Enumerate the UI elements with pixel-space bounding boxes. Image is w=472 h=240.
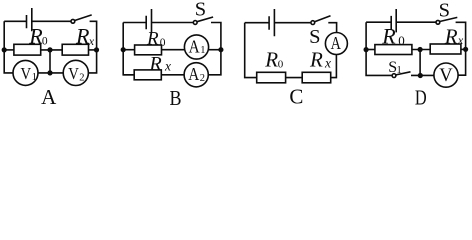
wire: A top-left segment <box>4 20 26 22</box>
wire: B top middle segment <box>152 22 194 24</box>
svg-text:2: 2 <box>200 73 205 84</box>
wire: C ammeter down + bend left to Rx <box>331 55 337 78</box>
wire: C top-right + corner down to ammeter <box>328 23 336 33</box>
wire: A bottom between V1 and V2 <box>38 72 63 74</box>
wire: B row2 Rx to A2 <box>161 74 184 76</box>
svg-text:0: 0 <box>42 36 48 48</box>
resistor R0 panel C <box>257 72 286 83</box>
voltmeter V2 panel A <box>63 60 88 85</box>
switch S panel B (open) <box>193 21 197 25</box>
battery (cell) panel C <box>269 9 274 36</box>
wire: C left vertical + bottom bend <box>245 23 257 78</box>
node A-mid <box>47 47 52 52</box>
wire: B row2 left stub <box>123 74 134 76</box>
svg-text:R: R <box>309 48 323 72</box>
svg-text:R: R <box>264 48 278 72</box>
node D-right <box>463 47 468 52</box>
svg-text:V: V <box>439 66 453 86</box>
wire: A top-right segment + right vertical + bottom-right bend <box>88 21 96 73</box>
battery (cell) panel B <box>146 9 151 33</box>
svg-text:R: R <box>146 29 159 50</box>
node B-left <box>121 47 126 52</box>
svg-text:x: x <box>88 34 95 48</box>
wire: C top middle segment <box>274 22 311 24</box>
wire: A mid row left stub <box>4 49 14 51</box>
svg-text:C: C <box>289 84 303 108</box>
svg-text:A: A <box>189 36 200 56</box>
svg-text:0: 0 <box>398 33 405 48</box>
node A-left <box>2 47 7 52</box>
wire: B top-right + right vertical + bend into A2 <box>208 23 221 75</box>
wire: B top-left segment <box>123 22 146 24</box>
wire: A top middle segment <box>32 20 71 22</box>
svg-text:D: D <box>415 86 427 109</box>
wire: C top-left segment <box>245 22 269 24</box>
ammeter A2 panel B <box>184 63 208 87</box>
svg-text:x: x <box>164 58 171 73</box>
svg-text:V: V <box>68 64 79 83</box>
resistor R0 panel B <box>135 45 162 55</box>
wire: A left vertical + bottom-left bend <box>4 21 13 73</box>
resistor Rx panel B <box>134 70 161 80</box>
wire: B row1 R0 to A1 <box>162 49 185 51</box>
wire: A between R0 and Rx <box>41 49 63 51</box>
node D-mid-bottom <box>418 73 423 78</box>
svg-text:B: B <box>170 86 182 108</box>
wire: D bottom S1 to V <box>411 74 434 76</box>
svg-text:R: R <box>149 53 162 75</box>
resistor Rx panel A <box>62 44 88 55</box>
svg-text:S: S <box>439 0 450 22</box>
svg-text:0: 0 <box>160 37 166 49</box>
voltmeter V1 panel A <box>13 60 38 85</box>
node A-bottom-mid <box>47 70 52 75</box>
svg-text:0: 0 <box>278 59 284 71</box>
svg-text:A: A <box>188 64 199 84</box>
svg-text:V: V <box>21 64 32 83</box>
wire: D mid row right stub <box>461 48 466 50</box>
svg-text:A: A <box>41 85 57 108</box>
svg-text:R: R <box>381 23 396 48</box>
wire: B row1 left stub <box>123 49 134 51</box>
voltmeter V panel D <box>434 63 458 87</box>
resistor R0 panel A <box>14 44 41 55</box>
switch S1 panel D (open) <box>392 74 396 78</box>
ammeter A panel C <box>325 33 347 55</box>
wire: D middle vertical <box>419 50 421 76</box>
node A-right <box>94 47 99 52</box>
svg-text:x: x <box>457 33 464 47</box>
wire: D top-right + right vertical + bend into V <box>456 22 466 75</box>
wire: D top middle segment <box>396 21 436 23</box>
wire: D mid row left stub <box>366 49 375 51</box>
ammeter A1 panel B <box>184 35 208 59</box>
svg-text:R: R <box>444 24 458 48</box>
resistor Rx panel D <box>430 44 461 54</box>
battery (cell) panel A <box>27 8 32 31</box>
battery (cell) panel D <box>391 9 396 32</box>
switch S panel C (open) <box>311 21 315 25</box>
wire: A middle vertical between nodes <box>49 50 51 73</box>
node D-left <box>364 47 369 52</box>
svg-text:1: 1 <box>32 72 37 83</box>
switch panel A (open) <box>71 19 75 23</box>
svg-text:x: x <box>324 56 331 71</box>
wire: D left vertical + bottom bend to S1 <box>366 22 392 75</box>
svg-text:S: S <box>195 0 206 21</box>
resistor Rx panel C <box>302 72 331 83</box>
node B-right <box>218 47 223 52</box>
node D-mid-top <box>418 47 423 52</box>
svg-text:S: S <box>309 26 320 48</box>
wire: D mid row R0 to Rx <box>412 49 430 51</box>
svg-text:1: 1 <box>397 65 402 76</box>
resistor R0 panel D <box>375 45 412 55</box>
wire: A mid row right stub <box>89 49 97 51</box>
switch S panel D (open) <box>436 20 440 24</box>
svg-text:2: 2 <box>79 72 84 83</box>
wire: B row1 A1 to right vertical <box>208 49 221 51</box>
wire: D top-left segment <box>366 21 391 23</box>
wire: C between R0 and Rx <box>286 77 303 79</box>
svg-text:1: 1 <box>200 45 205 56</box>
wire: B left vertical + bottom bend to Rx <box>123 23 134 75</box>
svg-text:A: A <box>331 33 342 53</box>
